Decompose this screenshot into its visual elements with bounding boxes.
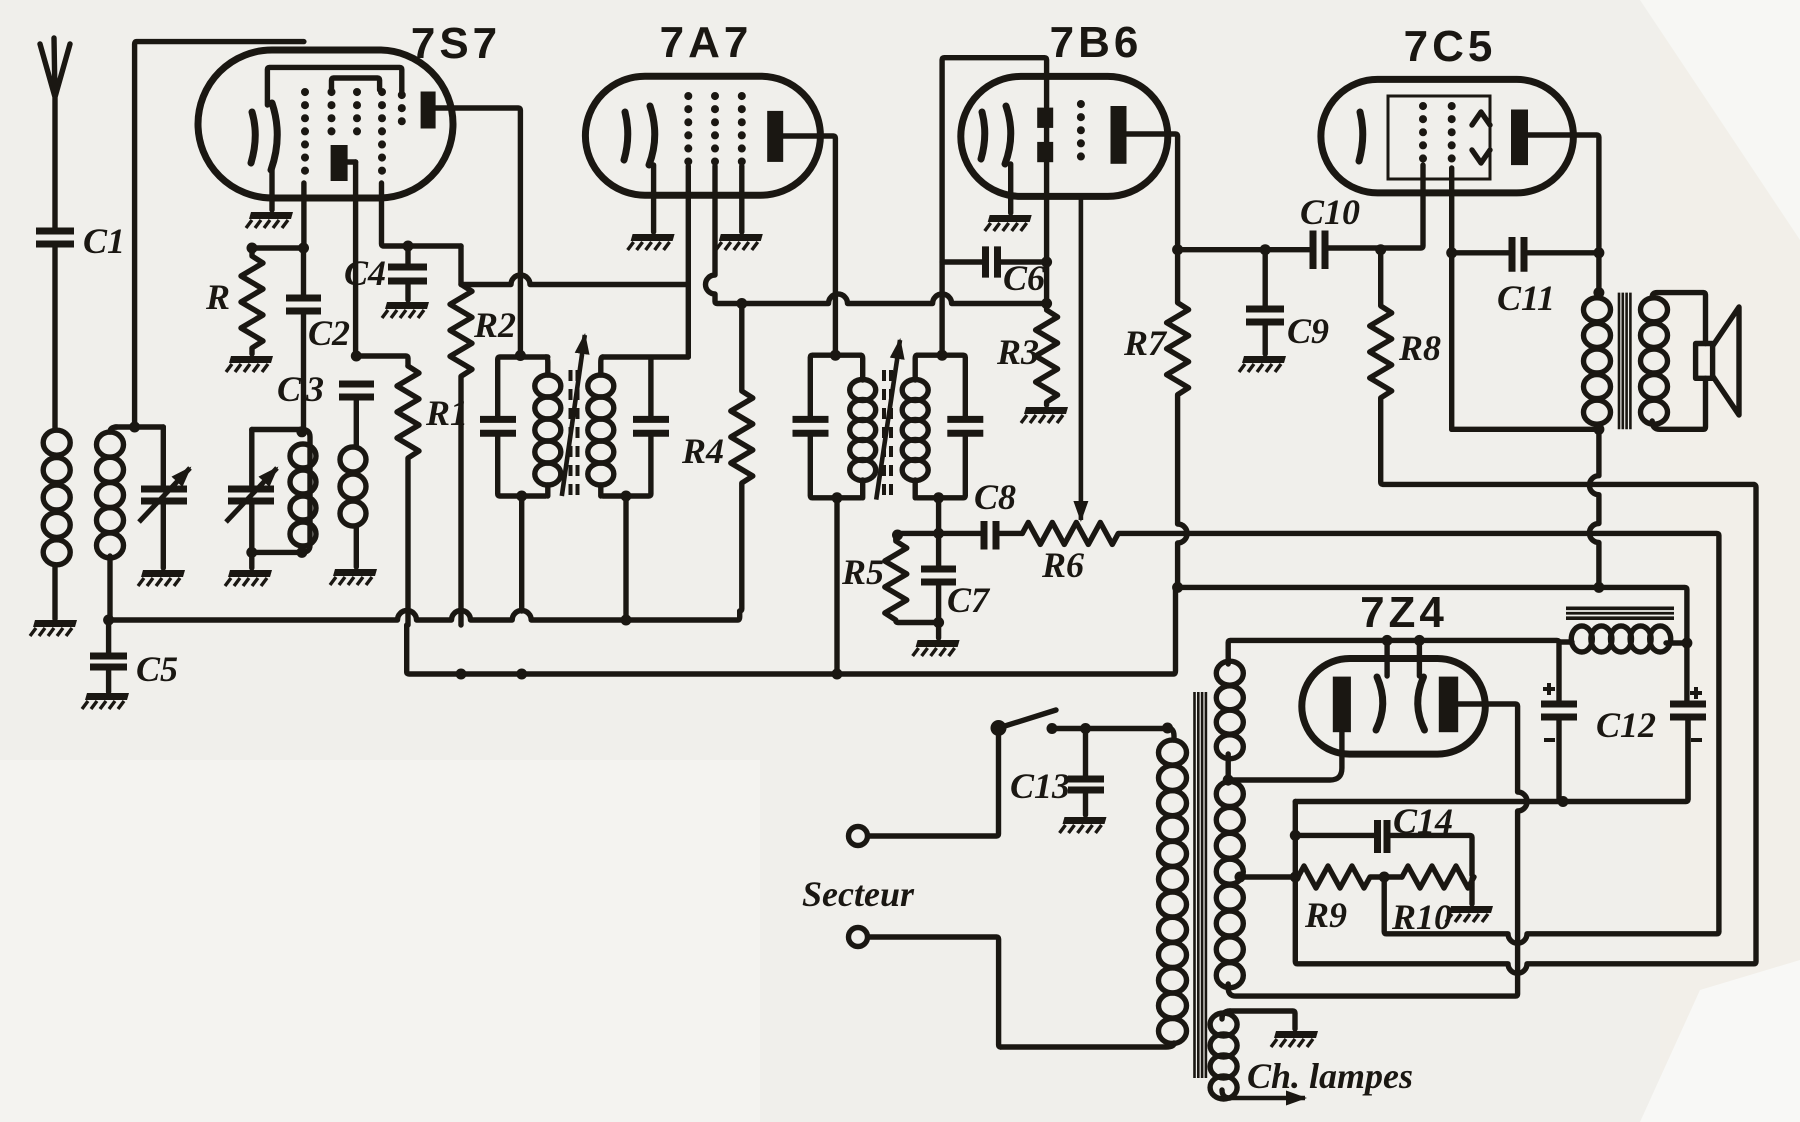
node bus1 left / C5 junction: [103, 615, 114, 626]
capacitor C12 right electrolytic: [1596, 643, 1706, 800]
svg-text:7Z4: 7Z4: [1360, 588, 1448, 637]
wire back bias vertical: [1290, 802, 1301, 883]
svg-text:C7: C7: [947, 580, 991, 620]
tube 7C5: [1321, 22, 1574, 193]
ground heater tap: [1271, 1031, 1318, 1047]
wire top horizontal and long left vertical: [135, 42, 304, 427]
svg-text:Ch. lampes: Ch. lampes: [1247, 1056, 1413, 1096]
resistor R1: [397, 366, 468, 625]
filter choke laminations: [1566, 607, 1674, 621]
wire 7B6 diode plates lead: [1044, 128, 1049, 304]
ground under R3: [1021, 407, 1068, 423]
svg-text:C14: C14: [1393, 801, 1453, 841]
wire 7B6 diode feed from IF2: [942, 58, 1047, 356]
coil L2 antenna secondary: [97, 427, 124, 619]
tube 7B6: [961, 18, 1168, 196]
Secteur terminal 1: [849, 736, 999, 846]
svg-text:C2: C2: [308, 313, 350, 353]
IF1 core and tuning arrow: [562, 335, 585, 502]
svg-text:Secteur: Secteur: [802, 874, 915, 914]
ground 7A7 cathode: [628, 234, 675, 250]
tube 7Z4: [1302, 588, 1486, 754]
resistor R7: [1123, 244, 1189, 587]
svg-text:R4: R4: [681, 431, 724, 471]
svg-text:C1: C1: [83, 221, 125, 261]
svg-text:R6: R6: [1041, 545, 1084, 585]
ground under C7: [913, 640, 960, 656]
filter choke coil: [1559, 626, 1692, 652]
power transformer HT upper winding: [1225, 659, 1230, 780]
svg-text:C9: C9: [1287, 311, 1329, 351]
capacitor C1: [36, 221, 125, 429]
wire bus1: [109, 611, 740, 626]
wire 7A7 anode lead: [783, 136, 835, 355]
ground under C5: [82, 693, 129, 709]
svg-text:C5: C5: [136, 649, 178, 689]
svg-text:R2: R2: [473, 305, 516, 345]
capacitor C7: [921, 533, 991, 638]
resistor R10: [1391, 866, 1474, 937]
wire 7S7 grid lead to C2 column: [301, 183, 306, 248]
coil L1 antenna primary: [43, 430, 70, 619]
tube 7A7: [585, 18, 820, 195]
resistor R4: [681, 298, 753, 611]
svg-text:C4: C4: [344, 253, 386, 293]
wire R9 left to heater tap: [1235, 872, 1296, 883]
svg-text:C: C: [277, 369, 302, 409]
svg-text:C13: C13: [1010, 766, 1070, 806]
IF2 transformer secondary tank: [902, 350, 983, 534]
wire 7C5 screen bottom return: [1452, 427, 1599, 432]
coil L3 oscillator tank: [246, 426, 316, 558]
ground under C4: [382, 302, 429, 318]
IF1 transformer secondary tank: [588, 357, 689, 618]
svg-text:C10: C10: [1300, 192, 1360, 232]
speaker: [1696, 307, 1739, 415]
ground 7S7 cathode: [246, 212, 293, 228]
ground 7B6 cathode: [985, 215, 1032, 231]
wire 7Z4 filament leads: [1387, 640, 1419, 676]
wire volume line and capacitor C8: [892, 477, 1022, 550]
capacitor C9: [1246, 244, 1329, 354]
svg-text:R3: R3: [996, 332, 1039, 372]
svg-text:7S7: 7S7: [411, 19, 501, 68]
IF1 transformer primary tank: [480, 357, 561, 611]
wire C12 bottom rail: [1295, 719, 1688, 807]
ground under R: [226, 356, 273, 372]
svg-text:R8: R8: [1398, 328, 1441, 368]
power transformer HT lower winding: [1225, 779, 1230, 988]
Secteur terminal 2: [849, 928, 1001, 1048]
ground under L1: [30, 620, 77, 636]
svg-text:R10: R10: [1391, 897, 1452, 937]
capacitor C11: [1446, 237, 1604, 318]
capacitor C14: [1295, 801, 1472, 875]
output transformer secondary: [1641, 293, 1706, 430]
capacitor C10: [1300, 165, 1423, 269]
wire 7S7 cathode lead: [269, 170, 274, 210]
ground 7A7 grid3: [716, 234, 763, 250]
capacitor C3: [277, 369, 374, 409]
output transformer primary: [1584, 287, 1611, 435]
capacitor C13: [1010, 723, 1104, 815]
wire 7A7 grid3 lead: [739, 166, 744, 232]
svg-text:R9: R9: [1304, 895, 1347, 935]
output transformer core: [1619, 293, 1630, 430]
wire 7A7 grid1 lead: [686, 166, 691, 357]
wire 7B6 cathode lead: [1008, 164, 1013, 213]
wire C3 junction to R1: [356, 356, 408, 366]
resistor R2: [450, 246, 516, 625]
variable capacitor CV1: [139, 427, 190, 568]
wire 7C5 screen lead and C11 line: [1449, 168, 1454, 429]
svg-text:C11: C11: [1497, 278, 1555, 318]
wire antenna tank top: [115, 422, 163, 433]
wire rectifier HT line: [1228, 635, 1559, 701]
wire B+ vertical from output transformer: [1589, 429, 1599, 587]
svg-text:R: R: [205, 277, 230, 317]
wire 7A7 cathode lead: [651, 165, 656, 232]
svg-text:R7: R7: [1123, 323, 1168, 363]
resistor R8: [1295, 244, 1756, 973]
ground under CV2: [225, 570, 272, 586]
svg-text:C6: C6: [1003, 258, 1045, 298]
ground under L4: [330, 569, 377, 585]
resistor R3: [996, 298, 1058, 405]
wire 7A7 grid2 lead and screen line: [706, 166, 1047, 304]
power transformer core: [1195, 692, 1206, 1078]
svg-text:R5: R5: [841, 552, 884, 592]
svg-text:C12: C12: [1596, 705, 1656, 745]
node C3 top junction: [351, 351, 362, 362]
resistor R5: [841, 533, 939, 622]
wire 7S7 g2 lead to C4: [382, 183, 462, 246]
ground under C13: [1060, 817, 1107, 833]
wire 7B6 diode wiper arrow: [1079, 196, 1084, 520]
capacitor C12 left electrolytic: [1541, 683, 1577, 800]
capacitor C5: [90, 620, 178, 692]
capacitor C2: [286, 248, 350, 427]
power transformer primary coil: [1001, 723, 1187, 1048]
IF2 transformer primary tank: [793, 350, 876, 670]
variable capacitor CV2 oscillator: [226, 430, 277, 569]
ground under CV1: [138, 570, 185, 586]
wire bus2: [407, 589, 1176, 680]
wire 7Z4 left plate to HT center tap: [1223, 732, 1342, 785]
wire 7S7 osc anode lead: [353, 162, 358, 356]
resistor R: [205, 243, 309, 355]
svg-text:7A7: 7A7: [660, 18, 753, 67]
wire B+ feed line: [1172, 582, 1687, 643]
capacitor C6: [942, 246, 1052, 298]
tube 7S7: [198, 19, 501, 198]
svg-text:7C5: 7C5: [1404, 22, 1497, 71]
resistor R9: [1295, 866, 1402, 935]
svg-text:7B6: 7B6: [1050, 18, 1143, 67]
ground under C9: [1239, 356, 1286, 372]
coil L4 oscillator grid coil: [340, 397, 366, 567]
power transformer heater winding: [1210, 1011, 1413, 1099]
antenna: [40, 38, 70, 230]
wire bias line to R9 R10 junction: [1384, 877, 1719, 943]
wire C10 plate line: [1178, 247, 1310, 252]
capacitor C4: [344, 241, 427, 301]
switch: [991, 710, 1166, 736]
wire 7Z4 right plate to HT bottom: [1228, 704, 1527, 996]
svg-text:3: 3: [305, 369, 324, 409]
wire 7C5 anode lead: [1528, 135, 1599, 293]
svg-text:C8: C8: [974, 477, 1016, 517]
resistor R6 volume control: [1022, 522, 1719, 931]
wire 7B6 anode lead: [1127, 134, 1178, 250]
wire 7S7 anode to IF1: [435, 108, 526, 361]
ground under R10: [1446, 906, 1493, 922]
IF2 core and tuning arrow: [876, 340, 900, 502]
wire AVC line: [461, 275, 688, 285]
